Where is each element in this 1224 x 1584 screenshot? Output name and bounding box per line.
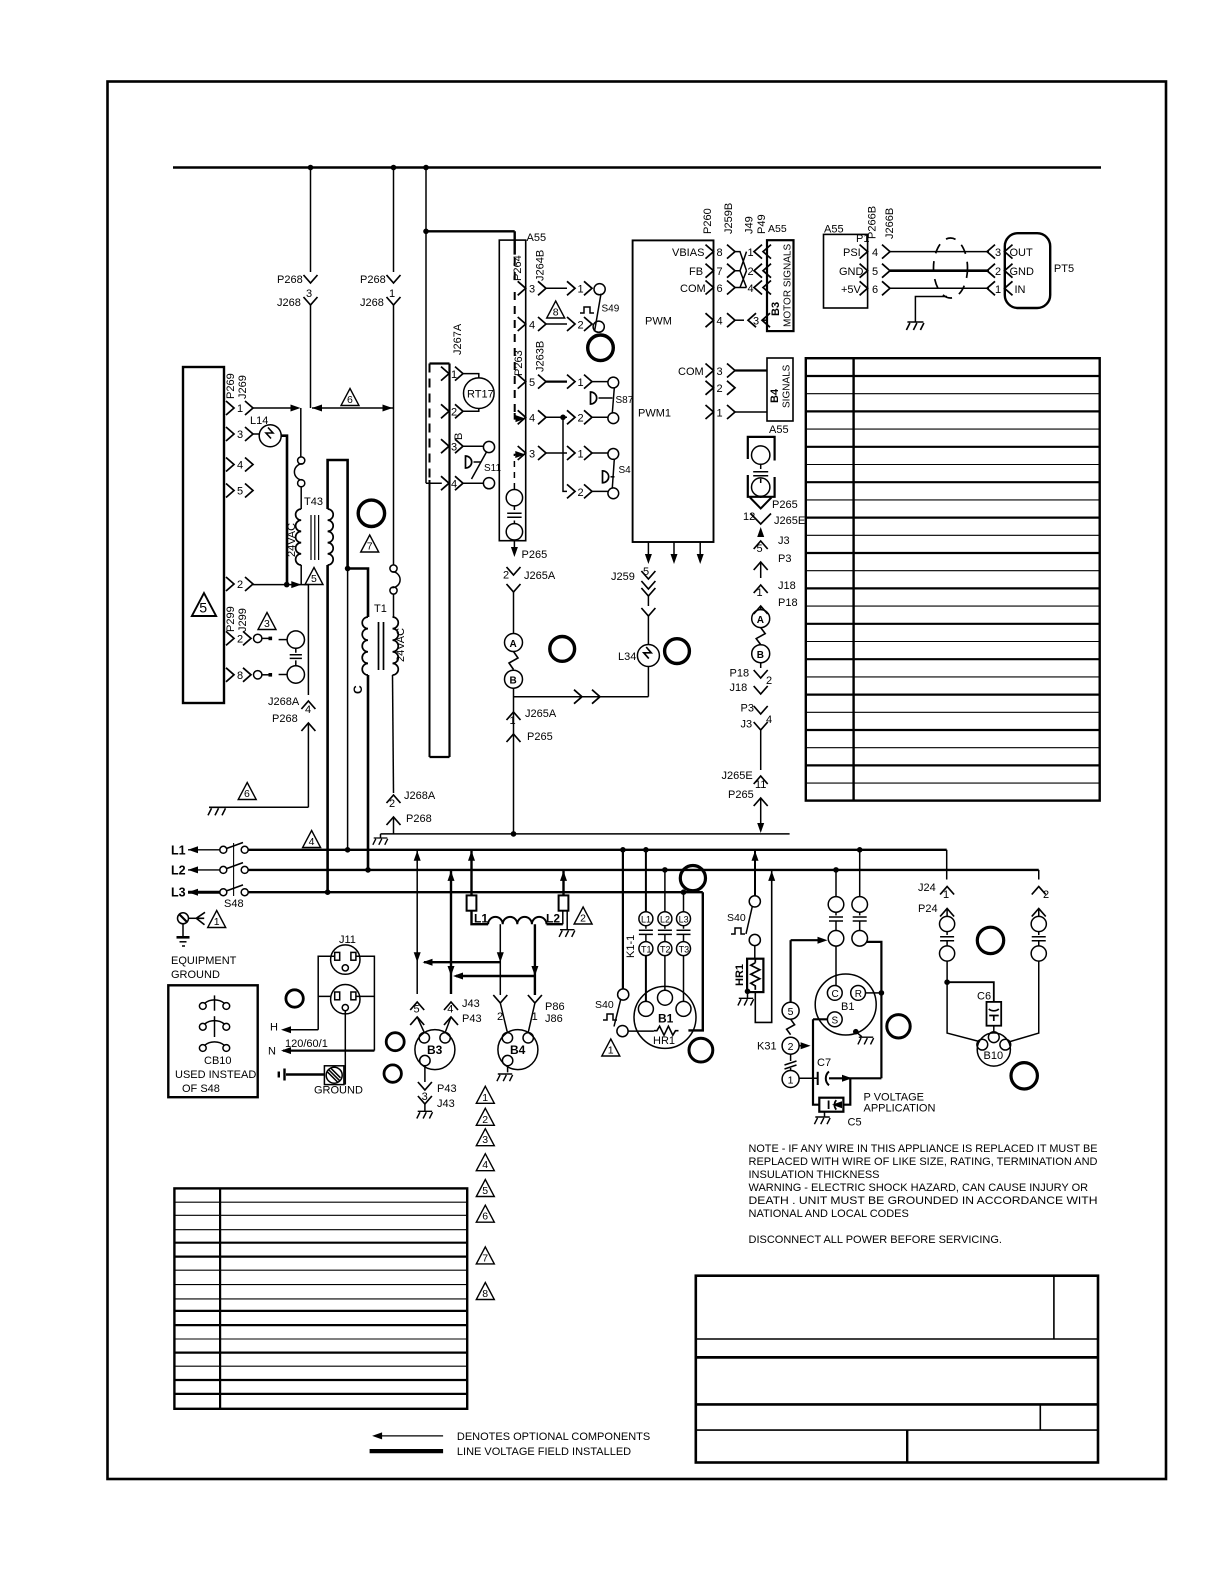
- svg-text:P43: P43: [437, 1083, 457, 1095]
- ground J11 box: [314, 1011, 363, 1097]
- legend line voltage: [370, 1446, 632, 1458]
- svg-text:COM: COM: [680, 283, 706, 295]
- switch S40 blower door: [595, 847, 629, 1037]
- svg-text:J269: J269: [237, 375, 249, 399]
- svg-text:S87: S87: [616, 395, 634, 406]
- box B4 SIGNALS: [767, 358, 793, 421]
- svg-text:B3: B3: [770, 302, 782, 316]
- node bus junction x310: [308, 165, 314, 171]
- table field wiring legend right: [806, 358, 1100, 800]
- svg-text:P265: P265: [527, 731, 553, 743]
- svg-text:P268: P268: [360, 274, 386, 286]
- svg-text:PT5: PT5: [1054, 263, 1074, 275]
- svg-text:J3: J3: [741, 719, 753, 731]
- legend optional components: [372, 1431, 650, 1443]
- svg-text:S40: S40: [595, 999, 614, 1011]
- connector J24/P24 pin1: [918, 850, 954, 917]
- pin P1 PSI 4: [843, 245, 890, 259]
- svg-text:6: 6: [872, 284, 878, 296]
- plug B10: [977, 1032, 1011, 1066]
- svg-text:7: 7: [482, 1252, 488, 1264]
- plug B4: [498, 1003, 538, 1070]
- svg-text:P86: P86: [545, 1001, 565, 1013]
- svg-text:4: 4: [482, 1159, 488, 1171]
- connector J265E-11: [722, 770, 768, 833]
- node L1 T1wire: [643, 847, 649, 853]
- svg-text:P269: P269: [225, 373, 237, 399]
- svg-text:A55: A55: [768, 223, 787, 235]
- ground C5: [814, 1112, 830, 1125]
- symbol earth electrode: [279, 1069, 325, 1081]
- svg-text:6: 6: [717, 283, 723, 295]
- connector J265E-12: [743, 511, 805, 537]
- wire coil tap to B4-2: [499, 924, 501, 995]
- svg-text:3: 3: [753, 316, 759, 328]
- box CB10: [168, 985, 257, 1097]
- svg-text:J86: J86: [545, 1013, 563, 1025]
- inductor L14: [250, 415, 281, 447]
- svg-text:B4: B4: [510, 1043, 526, 1057]
- pin J263B-4: [518, 410, 619, 424]
- pin J267A-4: [441, 476, 463, 490]
- svg-text:LINE VOLTAGE FIELD INSTALLED: LINE VOLTAGE FIELD INSTALLED: [457, 1446, 631, 1458]
- connector J18/P18 pin1: [754, 580, 798, 614]
- wire L3 to HR1 right (thick): [688, 892, 702, 1030]
- svg-text:5: 5: [757, 543, 763, 555]
- connector P268/J268 pin 3: [304, 275, 318, 315]
- svg-text:OUT: OUT: [1010, 247, 1034, 259]
- svg-text:4: 4: [717, 316, 723, 328]
- svg-text:L34: L34: [618, 651, 636, 663]
- svg-text:J268: J268: [277, 297, 301, 309]
- svg-text:S49: S49: [602, 304, 620, 315]
- pin P269-4: [226, 458, 253, 472]
- svg-text:B: B: [757, 650, 764, 661]
- wire L14 to pin2 node (thick): [281, 436, 287, 585]
- svg-text:J18: J18: [730, 682, 748, 694]
- wire S40 to HR1: [628, 1030, 654, 1032]
- svg-text:5: 5: [414, 1004, 420, 1016]
- svg-text:A55: A55: [769, 424, 789, 436]
- flame sensor pin2: [1008, 909, 1046, 1043]
- motor B1 inducer: [815, 974, 876, 1035]
- svg-text:HR1: HR1: [653, 1035, 675, 1047]
- svg-text:GROUND: GROUND: [314, 1085, 363, 1097]
- pin PT5 2 GND: [987, 264, 1034, 279]
- fuse L2 line: [559, 870, 569, 930]
- svg-text:C: C: [351, 685, 365, 694]
- svg-text:P265: P265: [772, 499, 798, 511]
- svg-text:B1: B1: [841, 1001, 854, 1013]
- svg-text:2: 2: [578, 487, 584, 499]
- flame sensor pin1: [940, 909, 955, 983]
- switch S49: [580, 294, 620, 332]
- svg-text:3: 3: [237, 429, 243, 441]
- svg-text:J266B: J266B: [884, 208, 896, 239]
- svg-text:MOTOR SIGNALS: MOTOR SIGNALS: [783, 244, 794, 327]
- ring optional 9: [689, 1038, 713, 1062]
- svg-text:2: 2: [237, 579, 243, 591]
- relay K31 chain: [757, 937, 828, 1088]
- svg-text:2: 2: [578, 413, 584, 425]
- svg-text:P299: P299: [225, 606, 237, 632]
- wire zigzag A-B: [509, 652, 518, 670]
- svg-text:OF S48: OF S48: [182, 1083, 220, 1095]
- box P269 connector body: [183, 367, 224, 703]
- terminal A: [505, 634, 523, 652]
- svg-text:P260: P260: [702, 208, 714, 234]
- transformer T43: [286, 487, 333, 565]
- pin PT5 3 OUT: [987, 245, 1033, 259]
- svg-text:1: 1: [482, 1092, 488, 1104]
- node bus junction x393: [391, 165, 397, 171]
- svg-text:3: 3: [529, 284, 535, 296]
- svg-text:1: 1: [214, 916, 220, 928]
- switch S11: [463, 441, 501, 488]
- box A55 P1: [824, 234, 868, 308]
- wire shield drain to ground: [915, 297, 947, 323]
- svg-text:J299: J299: [237, 608, 249, 632]
- svg-text:P263: P263: [513, 350, 525, 376]
- svg-text:J264B: J264B: [535, 250, 547, 281]
- svg-text:6: 6: [482, 1211, 488, 1223]
- wire branch to S4-2: [563, 417, 567, 491]
- box B3 MOTOR SIGNALS: [767, 240, 794, 331]
- pin P299-2: [226, 631, 272, 645]
- svg-text:J43: J43: [462, 998, 480, 1010]
- svg-text:8: 8: [553, 307, 559, 319]
- transformer T1: [362, 603, 407, 675]
- wire P268-1 stem down to T1 fuse: [393, 315, 395, 565]
- ring optional 7: [384, 1065, 401, 1082]
- symbol triangle 7: [361, 535, 379, 553]
- svg-text:J265E: J265E: [722, 770, 753, 782]
- svg-text:P49: P49: [756, 214, 768, 234]
- connector B3 pin3 P43/J43: [418, 1066, 457, 1111]
- wire T43 left lead upper: [300, 408, 302, 457]
- node junction x426 y231: [423, 229, 429, 235]
- svg-text:6: 6: [244, 788, 250, 800]
- box A55 strip: [499, 240, 525, 541]
- terminal A right: [752, 610, 770, 628]
- inductor line choke: [474, 912, 563, 926]
- svg-text:J18: J18: [778, 580, 796, 592]
- wire thin drop to L1: [347, 569, 349, 850]
- node B10 branch: [944, 979, 950, 985]
- svg-text:2: 2: [482, 1114, 488, 1126]
- svg-text:RT17: RT17: [467, 389, 494, 401]
- wire jumper coil to B3 row2: [456, 975, 535, 977]
- svg-text:2: 2: [788, 1041, 794, 1053]
- svg-text:CB10: CB10: [204, 1055, 232, 1067]
- symbol triangle 5 in P269 box: [192, 593, 216, 617]
- svg-text:11: 11: [755, 779, 766, 791]
- svg-text:7: 7: [717, 266, 723, 278]
- wire pin1 to B10: [947, 982, 979, 1041]
- node L3 T3wire: [681, 889, 687, 895]
- svg-text:H: H: [270, 1022, 278, 1034]
- svg-text:2: 2: [995, 266, 1001, 278]
- svg-text:4: 4: [872, 247, 878, 259]
- svg-text:4: 4: [748, 283, 754, 295]
- svg-text:WARNING - ELECTRIC SHOCK HAZAR: WARNING - ELECTRIC SHOCK HAZARD, CAN CAU…: [749, 1182, 1089, 1194]
- ring optional 11: [977, 927, 1003, 953]
- svg-text:S4: S4: [619, 465, 632, 476]
- ground HR1: [738, 989, 754, 1006]
- svg-text:7: 7: [367, 541, 373, 553]
- wire branch to L34: [514, 690, 649, 704]
- svg-text:A: A: [510, 639, 517, 650]
- node bus junction x426: [423, 165, 429, 171]
- wire pin2 to junction: [253, 584, 287, 586]
- svg-text:2: 2: [237, 633, 243, 645]
- connector J24/P24 pin2: [1032, 870, 1049, 917]
- switch S40 second: [727, 850, 760, 946]
- wire drop to P268-1: [393, 168, 395, 273]
- switch S48 tie: [233, 843, 235, 896]
- pin P299-8: [226, 668, 272, 682]
- svg-text:4: 4: [305, 704, 311, 716]
- pin S4-2: [567, 484, 619, 498]
- pin J264B-4: [518, 317, 605, 332]
- svg-text:T2: T2: [660, 944, 671, 954]
- pin P260-7 FB: [689, 264, 735, 278]
- wire +5V to PT5: [890, 287, 989, 289]
- svg-text:T1: T1: [641, 944, 652, 954]
- svg-text:1: 1: [995, 284, 1001, 296]
- svg-text:J263B: J263B: [535, 341, 547, 372]
- svg-text:1: 1: [608, 1045, 614, 1057]
- bracket A55 igniter: [748, 424, 789, 497]
- svg-text:INSULATION THICKNESS: INSULATION THICKNESS: [749, 1169, 880, 1181]
- svg-text:3: 3: [995, 247, 1001, 259]
- wire drop to J267A feed: [426, 168, 442, 484]
- pin P260-2: [706, 381, 736, 395]
- svg-text:A: A: [757, 615, 764, 626]
- wire HR1 loop to L2: [755, 871, 775, 1023]
- svg-text:PSI: PSI: [843, 247, 861, 259]
- symbol triangle 5 at T43: [305, 568, 323, 586]
- svg-text:1: 1: [578, 448, 584, 460]
- igniter column left: [828, 867, 844, 985]
- symbol triangle 4: [303, 831, 321, 849]
- svg-text:C6: C6: [977, 991, 991, 1003]
- svg-text:B: B: [453, 433, 465, 440]
- svg-text:3: 3: [264, 618, 270, 630]
- wire T43 right lead up and over (thick): [328, 460, 348, 569]
- svg-text:N: N: [268, 1046, 276, 1058]
- wire bus L2: [171, 863, 1039, 878]
- pin P260-1 PWM1: [638, 405, 767, 420]
- wire pin1 to T43 lead: [253, 407, 292, 409]
- symbol triangle 1: [602, 1039, 620, 1057]
- svg-text:L1: L1: [641, 915, 651, 925]
- svg-text:J265E: J265E: [774, 515, 805, 527]
- svg-text:5: 5: [482, 1185, 488, 1197]
- wire B down to thin bus: [513, 688, 515, 834]
- svg-text:J268A: J268A: [404, 790, 436, 802]
- breaker T1 fuse circles: [390, 565, 400, 617]
- wire P268-3 stem to dim line: [310, 315, 312, 408]
- wire top supply bus: [173, 166, 1101, 168]
- ground neutral: [373, 834, 388, 845]
- svg-text:REPLACED WITH WIRE OF LIKE SI: REPLACED WITH WIRE OF LIKE SIZE, RATING,…: [749, 1156, 1098, 1168]
- ring optional 5: [286, 990, 303, 1007]
- wire T1 primary C to L2 (thick): [367, 675, 370, 870]
- svg-text:P18: P18: [730, 668, 750, 680]
- svg-text:T3: T3: [679, 944, 690, 954]
- connector P18/J18 pin2: [730, 663, 773, 694]
- node L2 T2wire: [662, 867, 668, 873]
- ground equipment left: [208, 807, 226, 815]
- svg-text:P264: P264: [512, 255, 524, 281]
- connector P265 arrow down: [750, 496, 798, 511]
- svg-text:DENOTES OPTIONAL COMPONENTS: DENOTES OPTIONAL COMPONENTS: [457, 1431, 650, 1443]
- breaker CB10 pole3: [199, 1042, 229, 1052]
- svg-text:L2: L2: [660, 915, 670, 925]
- terminal B: [505, 670, 523, 688]
- contact L3/T3: [677, 892, 691, 1001]
- connector J268A/P268 pin 2: [387, 795, 401, 834]
- svg-text:3: 3: [529, 448, 535, 460]
- symbol dim arrows triangle6: [312, 389, 394, 412]
- svg-text:P43: P43: [462, 1013, 482, 1025]
- wire T43 secondary to L3 (thick): [326, 565, 329, 892]
- wire B3-4 feed (thick): [450, 870, 452, 994]
- svg-text:1: 1: [510, 715, 516, 727]
- svg-text:J49: J49: [744, 216, 756, 234]
- svg-text:PWM1: PWM1: [638, 408, 671, 420]
- svg-text:B4: B4: [769, 388, 781, 403]
- table title block: [696, 1276, 1098, 1463]
- svg-text:C7: C7: [817, 1057, 831, 1069]
- ring optional 12: [1011, 1063, 1037, 1089]
- svg-text:4: 4: [766, 714, 772, 726]
- svg-text:4: 4: [237, 460, 243, 472]
- pin J263B-3 with S4: [518, 446, 619, 460]
- terminal B right: [752, 645, 770, 663]
- node L14/pin2 junction: [284, 582, 290, 588]
- pin J267A-3: [441, 439, 463, 453]
- wire GND to PT5 (thick): [890, 269, 989, 272]
- wire B3-5 feed: [416, 850, 418, 994]
- svg-text:4: 4: [529, 319, 535, 331]
- svg-text:P265: P265: [728, 789, 754, 801]
- svg-text:B1: B1: [658, 1012, 674, 1026]
- svg-text:1: 1: [578, 377, 584, 389]
- pin J49-2: [748, 264, 772, 278]
- pin P269-3: [226, 427, 253, 441]
- svg-text:J268A: J268A: [268, 696, 300, 708]
- thermistor RT17: [463, 374, 494, 412]
- switch S4: [603, 459, 632, 488]
- capacitor C7: [799, 1057, 881, 1085]
- connector J268A/P268 pin 4: [301, 701, 315, 807]
- node S4 branch: [560, 415, 566, 421]
- pin PT5 1 IN: [987, 281, 1026, 296]
- connector P268/J268 pin 1: [387, 275, 401, 315]
- svg-text:2: 2: [503, 570, 509, 582]
- ring optional 10: [887, 1015, 910, 1038]
- svg-text:P268: P268: [272, 713, 298, 725]
- box J267A connector: [430, 364, 450, 758]
- connector P265 exit arrow: [511, 541, 547, 561]
- wire C feed to T1 (thick): [348, 569, 368, 618]
- svg-text:K31: K31: [757, 1041, 777, 1053]
- svg-text:5: 5: [529, 377, 535, 389]
- igniter flame sensor in strip: [506, 451, 525, 540]
- svg-text:S: S: [832, 1015, 839, 1026]
- svg-text:DEATH . UNIT MUST BE GROU: DEATH . UNIT MUST BE GROUNDED IN ACCORDA…: [749, 1195, 1098, 1207]
- symbol triangle 1: [208, 911, 226, 929]
- svg-text:L3: L3: [679, 915, 689, 925]
- ring optional 1: [358, 500, 384, 526]
- pin P260-3 COM: [678, 364, 767, 379]
- plug B3: [415, 1017, 455, 1070]
- svg-text:S48: S48: [224, 898, 244, 910]
- svg-text:5: 5: [788, 1006, 794, 1018]
- svg-text:L1: L1: [171, 843, 186, 857]
- svg-text:4: 4: [447, 1004, 453, 1016]
- svg-text:5: 5: [199, 601, 207, 617]
- pin J267A-2: [441, 404, 463, 418]
- wire P263 dashed: [515, 292, 521, 419]
- svg-text:4: 4: [529, 413, 535, 425]
- capacitor C5 box: [819, 1078, 861, 1128]
- pin P260-4 PWM: [645, 313, 770, 327]
- svg-text:24VAC: 24VAC: [286, 523, 298, 557]
- svg-text:1: 1: [748, 247, 754, 259]
- svg-text:2: 2: [1043, 889, 1049, 901]
- svg-text:T43: T43: [304, 496, 323, 508]
- arrows below P260: [645, 542, 704, 564]
- symbol triangle 2: [574, 907, 592, 925]
- pin P260-6 COM: [680, 281, 735, 296]
- motor B1 blower: [634, 986, 696, 1048]
- ring optional 8: [680, 866, 705, 891]
- svg-text:2: 2: [748, 266, 754, 278]
- ring optional 6: [386, 1033, 404, 1051]
- svg-text:IN: IN: [1015, 284, 1026, 296]
- wire R pin to right rail: [866, 985, 885, 1078]
- connector B4 pin1 P86/J86: [528, 995, 565, 1025]
- wire zigzag A-B right: [756, 628, 765, 645]
- pin J49-4: [748, 281, 772, 296]
- wire to C6: [947, 982, 994, 1002]
- pin J264B-3 with S49: [518, 281, 606, 295]
- svg-text:L1: L1: [474, 912, 488, 926]
- svg-text:8: 8: [482, 1288, 488, 1300]
- symbol screw ground: [177, 912, 206, 946]
- svg-text:P24: P24: [918, 903, 938, 915]
- connector J265A pin2: [503, 567, 521, 634]
- connector B4 pin2: [493, 995, 507, 1023]
- svg-text:B10: B10: [984, 1050, 1004, 1062]
- pin P269-2: [226, 577, 253, 591]
- svg-text:2: 2: [580, 913, 586, 925]
- svg-text:HR1: HR1: [734, 964, 746, 986]
- contact L2/T2: [658, 870, 672, 991]
- svg-text:B: B: [510, 676, 517, 687]
- pin P1 +5V 6: [841, 281, 890, 296]
- table legend bottom-left: [174, 1188, 467, 1408]
- svg-text:1: 1: [578, 284, 584, 296]
- pin P1 GND 5: [839, 264, 890, 279]
- svg-text:L2: L2: [546, 912, 560, 926]
- svg-text:2: 2: [717, 383, 723, 395]
- wire bus L3: [171, 885, 703, 900]
- node L3 x327: [325, 889, 331, 895]
